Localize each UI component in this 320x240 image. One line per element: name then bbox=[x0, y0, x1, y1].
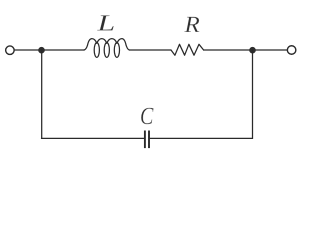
wire bbox=[14, 49, 84, 51]
wire bottom right bbox=[150, 137, 253, 139]
wire bbox=[204, 49, 287, 51]
node right junction bbox=[249, 47, 256, 54]
capacitor C plate left bbox=[144, 131, 146, 149]
node left junction bbox=[38, 47, 45, 54]
inductor L coil bbox=[84, 39, 129, 50]
terminal right bbox=[287, 46, 296, 55]
inductor loop 2 bbox=[104, 43, 109, 58]
wire left vertical bbox=[41, 50, 43, 138]
label R bbox=[184, 17, 199, 32]
resistor R zigzag bbox=[171, 44, 204, 55]
capacitor C plate right bbox=[148, 131, 150, 149]
wire right vertical bbox=[252, 50, 254, 138]
label L bbox=[97, 15, 114, 30]
inductor loop 3 bbox=[114, 43, 119, 58]
wire bbox=[129, 49, 171, 51]
terminal left bbox=[6, 46, 15, 55]
inductor loop 1 bbox=[94, 43, 99, 58]
label C bbox=[141, 108, 154, 125]
wire bottom left bbox=[42, 137, 144, 139]
